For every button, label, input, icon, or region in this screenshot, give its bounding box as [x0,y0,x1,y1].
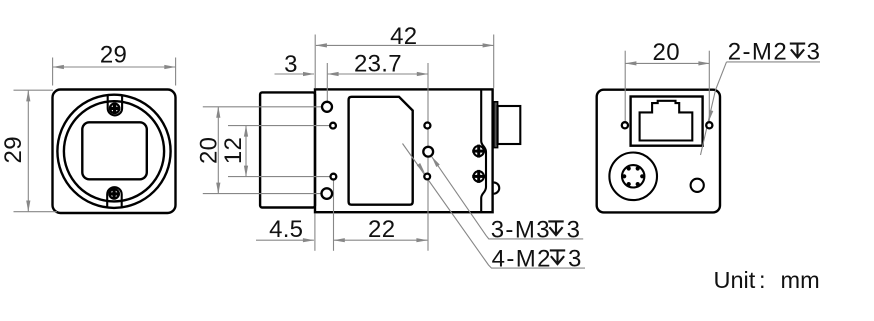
svg-text:3: 3 [807,39,822,66]
svg-text:2-M2: 2-M2 [728,39,788,66]
svg-text:12: 12 [220,137,247,164]
svg-text:20: 20 [196,137,223,164]
svg-text:42: 42 [390,23,417,50]
svg-text:23.7: 23.7 [354,50,402,77]
svg-text:Unit: Unit [714,267,756,293]
svg-text:4-M2: 4-M2 [492,245,552,272]
svg-text:29: 29 [100,41,127,68]
svg-text:3-M3: 3-M3 [491,216,551,243]
svg-text:3: 3 [567,216,582,243]
svg-text:4.5: 4.5 [269,216,303,243]
svg-text:mm: mm [781,267,820,293]
svg-text:3: 3 [568,245,583,272]
svg-text:3: 3 [284,51,298,78]
svg-text:29: 29 [0,136,27,163]
svg-text:20: 20 [653,39,680,66]
svg-text::: : [759,267,766,293]
svg-text:22: 22 [368,216,395,243]
